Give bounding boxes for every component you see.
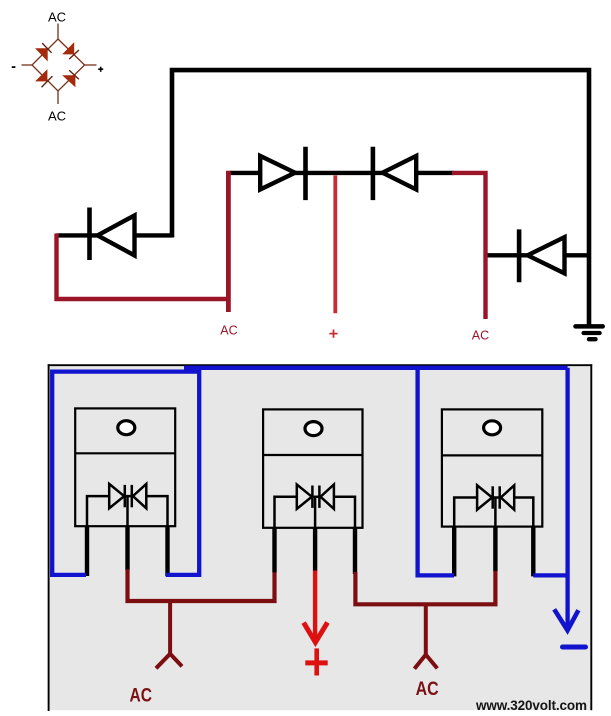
label plus xyxy=(329,330,337,338)
svg-text:AC: AC xyxy=(48,9,66,24)
wire dark red left AC vertical xyxy=(226,171,231,312)
svg-text:AC: AC xyxy=(416,678,439,700)
label plus xyxy=(98,67,103,72)
svg-text:www.320volt.com: www.320volt.com xyxy=(475,698,587,713)
wire AC left net xyxy=(128,569,275,601)
label plus red xyxy=(305,660,327,665)
blue arrowhead xyxy=(554,609,578,630)
label minus xyxy=(12,66,16,68)
wire blue top bus xyxy=(184,366,568,370)
diode D4 xyxy=(528,237,565,273)
blue negative bus xyxy=(52,368,585,647)
bridge rectifier icon BR1 xyxy=(12,9,103,123)
bridge diode lower-right xyxy=(62,75,75,87)
label minus blue xyxy=(563,645,586,650)
dark red AC nets bottom xyxy=(128,569,496,706)
dual diode U3 xyxy=(477,485,492,509)
board panel xyxy=(48,364,593,711)
package U3 xyxy=(442,409,542,576)
red plus net bottom xyxy=(304,571,328,676)
wire AC right net xyxy=(355,571,495,604)
bridge diode upper-left xyxy=(35,48,48,61)
bridge diode lower-left xyxy=(35,69,47,81)
red arrowhead xyxy=(304,622,328,642)
diode D1 xyxy=(98,215,135,255)
diode box U3 xyxy=(454,498,533,527)
wire red plus net xyxy=(333,175,337,313)
AC left arrow xyxy=(168,601,172,654)
wire blue U3 left xyxy=(418,368,454,576)
legs U2 xyxy=(272,528,276,573)
lead top AC xyxy=(57,24,59,40)
package U1 xyxy=(75,408,175,576)
ground xyxy=(576,324,603,329)
wire blue loop U1 xyxy=(52,372,199,575)
AC right arrow xyxy=(424,604,428,655)
wire top black loop xyxy=(172,70,589,326)
legs U1 xyxy=(85,527,89,577)
wire middle diode row xyxy=(230,171,455,175)
diode D3 xyxy=(383,156,417,190)
wire plus drop xyxy=(313,571,317,638)
package U2 xyxy=(263,409,362,574)
diode box U1 xyxy=(87,496,168,526)
wire right diode row xyxy=(487,253,590,257)
bridge diode upper-right xyxy=(62,42,74,54)
svg-text:AC: AC xyxy=(48,109,66,124)
diamond outline xyxy=(32,39,85,91)
middle schematic xyxy=(57,70,603,342)
wire dark red right AC net xyxy=(452,173,486,319)
svg-text:AC: AC xyxy=(130,684,153,706)
dual diode U2 xyxy=(297,485,312,509)
lead left minus xyxy=(22,64,33,66)
lead bottom AC xyxy=(57,91,59,104)
svg-text:AC: AC xyxy=(220,323,237,337)
svg-text:AC: AC xyxy=(472,328,489,342)
wire blue minus drop xyxy=(565,368,569,627)
legs U3 xyxy=(452,527,456,577)
diode box U2 xyxy=(275,497,356,528)
lead right plus xyxy=(85,64,97,66)
diode D2 xyxy=(260,156,295,190)
dual diode U1 xyxy=(109,484,124,508)
wire dark red left AC net xyxy=(57,234,229,300)
wire left diode row xyxy=(57,233,173,237)
wire blue U3 right xyxy=(533,573,567,577)
